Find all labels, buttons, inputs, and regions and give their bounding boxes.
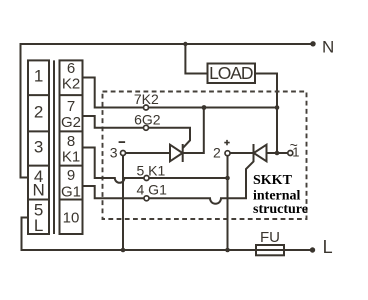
junction dot bottom rail at node 2 drop	[225, 248, 230, 253]
wire G1 terminal to 4G1 line with hop, up to gate of thyristor V1	[83, 161, 254, 204]
svg-text:N: N	[32, 180, 44, 199]
wire node 3 drop to bottom rail	[122, 155, 124, 250]
wire K2 terminal to 7K2 line and across to node 1 column	[83, 78, 278, 108]
junction dot top rail to LOAD	[183, 42, 187, 46]
svg-text:N: N	[322, 37, 334, 56]
connection circle 6G2	[144, 125, 149, 130]
connection circle 5K1	[144, 176, 149, 181]
svg-text:4 G1: 4 G1	[137, 182, 168, 198]
node 2 plus sign	[224, 140, 229, 145]
svg-text:1: 1	[34, 67, 43, 86]
svg-text:7: 7	[67, 98, 75, 115]
terminal dot N	[310, 41, 315, 46]
node 3 minus sign	[119, 141, 126, 143]
wire node 2 to thyristor V1 cathode	[230, 152, 254, 154]
svg-text:2: 2	[34, 103, 43, 122]
wire left drop from top rail into terminal 4 N	[21, 43, 29, 178]
svg-text:6G2: 6G2	[134, 112, 161, 128]
load box	[208, 63, 256, 83]
svg-text:SKKT: SKKT	[253, 173, 293, 188]
svg-text:3: 3	[110, 145, 118, 161]
svg-text:2: 2	[213, 145, 221, 161]
svg-text:FU: FU	[260, 229, 280, 246]
svg-text:G2: G2	[61, 114, 81, 131]
connection circle 4G1	[144, 196, 149, 201]
wire node 3 to thyristor V2 anode	[125, 152, 170, 154]
terminal dot L	[310, 247, 315, 252]
svg-text:LOAD: LOAD	[209, 63, 253, 83]
wire K1 terminal to 5K1 line with hop over node-3 drop	[83, 148, 228, 183]
svg-text:10: 10	[63, 209, 80, 226]
terminal block middle divider line	[53, 60, 55, 234]
wire node 2 drop to bottom rail	[227, 156, 229, 250]
node 1 circle	[288, 151, 293, 156]
svg-text:L: L	[34, 216, 43, 235]
svg-text:3: 3	[34, 138, 43, 157]
wire thyristor V1 anode to node 1	[267, 152, 289, 154]
wire thyristor V2 cathode up to 7K2 line	[183, 108, 204, 154]
thyristor V1 (right, anode at 1, cathode at 2)	[254, 144, 267, 162]
wire top rail N	[20, 43, 314, 45]
terminal block left column boxes 1-5	[28, 60, 49, 234]
node 2 circle	[225, 151, 230, 156]
junction dot 7K2 line at thyristor V2 cathode	[202, 105, 207, 110]
svg-text:structure: structure	[253, 202, 308, 217]
wire LOAD output down to node 1	[255, 74, 277, 154]
svg-text:9: 9	[67, 167, 75, 184]
connection circle 7K2	[144, 105, 149, 110]
thyristor V2 (left, anode at 3, cathode to K2)	[170, 144, 183, 162]
fuse FU	[256, 229, 284, 255]
junction dot 5K1 at node 2 drop	[225, 176, 230, 181]
svg-text:5 K1: 5 K1	[137, 162, 166, 178]
svg-text:~: ~	[290, 137, 298, 153]
svg-text:G1: G1	[61, 184, 81, 201]
wire bottom rail from L terminal to fuse	[22, 218, 313, 251]
wire branch from top rail down to LOAD	[185, 44, 207, 74]
junction dot 7K2 line at node 1 column	[275, 105, 280, 110]
junction dot node 1	[275, 151, 280, 156]
dashed SKKT module boundary box	[103, 92, 307, 220]
svg-text:7K2: 7K2	[134, 91, 159, 107]
junction dot bottom rail at node 3 drop	[121, 248, 126, 253]
terminal block right column boxes 6-10	[60, 60, 83, 234]
node 3 circle	[121, 151, 126, 156]
svg-text:K1: K1	[62, 148, 80, 165]
wire G2 terminal to 6G2 line and gate of thyristor V2	[83, 116, 191, 148]
svg-text:internal: internal	[253, 188, 301, 203]
svg-text:6: 6	[67, 60, 75, 77]
svg-text:L: L	[323, 237, 333, 257]
svg-text:K2: K2	[62, 76, 80, 93]
